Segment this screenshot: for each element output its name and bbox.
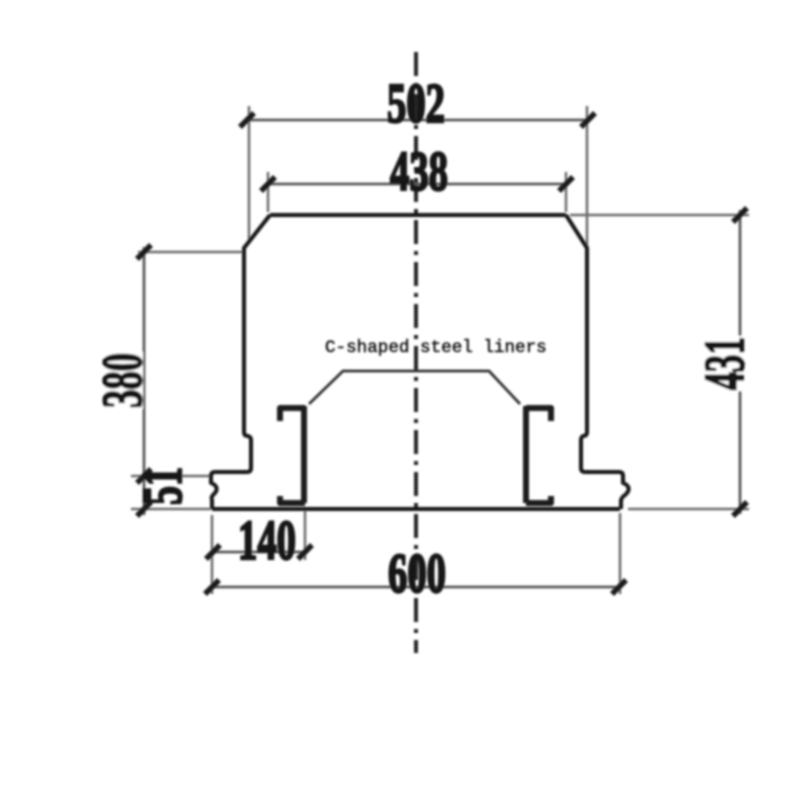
extension line 502 right [586,106,589,246]
dimension line 431 [739,210,742,514]
extension line 438 right [565,172,568,212]
tick 600 right [612,580,626,594]
extension line 380 top [138,251,245,254]
dimension line 140 [213,551,305,554]
svg-text:380: 380 [92,353,154,408]
tick 431 bottom [733,502,747,516]
extension line 438 left [267,172,270,212]
extension line 600 right [619,513,622,594]
svg-text:140: 140 [238,510,296,572]
dim text 431 (rotated, white backing) [701,336,744,391]
tick 380 top [137,245,151,259]
dimension line 600 [212,586,619,589]
profile right side (chamfer, wall, step, foot) [566,215,629,509]
profile bottom edge [212,507,620,511]
svg-text:431: 431 [694,337,756,390]
extension line 380 bottom / 51 top [131,475,211,478]
dim text 380 (rotated, white backing) [104,352,143,409]
svg-text:438: 438 [390,141,448,203]
tick 600 left [205,580,219,594]
svg-text:51: 51 [132,467,194,505]
C-channel left (thick) [280,408,305,421]
dimension line 502 [247,119,588,122]
hat crown (thin lines) [309,371,520,404]
extension line 431 top [570,214,749,217]
svg-text:C-shaped steel liners: C-shaped steel liners [325,338,547,358]
profile top edge [270,213,566,217]
tick 438 left [261,177,275,191]
tick 502 right [581,113,595,127]
tick 502 left [240,113,254,127]
tick 51 bottom [137,502,151,516]
extension line 502 left [248,106,251,243]
extension line 140 right [304,511,307,560]
svg-text:600: 600 [388,543,446,605]
tick 431 top [733,208,747,222]
centerline [414,52,418,653]
extension line 431 bottom [628,508,749,511]
profile left side (chamfer, wall, step, foot) [211,215,270,509]
dimension line 438 [268,183,566,186]
tick 380 bottom [137,469,151,483]
extension line 140+600 left [211,515,214,594]
tick 140 right [298,545,312,559]
extension line 51 bottom [131,508,211,511]
C-channel right (thick) [526,408,551,421]
tick 438 right [559,177,573,191]
dimension line 380+51 [143,247,146,515]
svg-text:502: 502 [387,73,445,135]
tick 140 left [206,545,220,559]
